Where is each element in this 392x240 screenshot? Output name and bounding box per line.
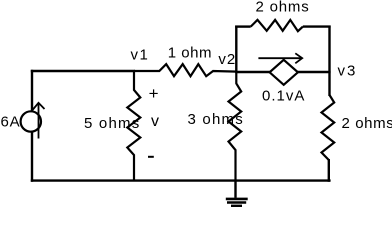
- polarity -: [148, 156, 154, 158]
- svg-text:5 ohms: 5 ohms: [84, 115, 140, 132]
- svg-text:6A: 6A: [1, 114, 21, 131]
- wire v2 to dependent source: [235, 71, 270, 73]
- wire bottom rail: [31, 179, 331, 181]
- wire v2 vertical up to top branch: [235, 26, 237, 73]
- ground bar 1: [226, 198, 248, 201]
- wire right vertical lower: [328, 159, 330, 182]
- wire left vertical lower: [31, 131, 33, 182]
- svg-text:1 ohm: 1 ohm: [168, 45, 212, 62]
- svg-text:2 ohms: 2 ohms: [256, 0, 310, 16]
- resistor R 2 ohms (top branch): [251, 20, 303, 31]
- wire top branch right lead: [303, 25, 331, 27]
- ground bar 2: [227, 201, 246, 204]
- svg-text:0.1vA: 0.1vA: [262, 88, 305, 105]
- ground stem: [234, 180, 236, 198]
- svg-text:v: v: [151, 113, 159, 130]
- resistor R 2 ohms (right vertical): [322, 95, 335, 160]
- dependent current source diamond 0.1vA: [270, 60, 298, 85]
- resistor R 5 ohms (vertical at v1): [127, 71, 140, 181]
- dependent source arrow (points right): [258, 53, 302, 63]
- resistor R 3 ohms (vertical at v2): [229, 71, 242, 181]
- wire top branch left lead: [235, 25, 251, 27]
- svg-text:v3: v3: [338, 63, 358, 80]
- svg-text:3 ohms: 3 ohms: [188, 111, 244, 128]
- wire left vertical upper: [31, 70, 33, 113]
- svg-text:+: +: [149, 84, 159, 103]
- current source I1 6A circle: [21, 111, 41, 131]
- svg-text:v1: v1: [131, 47, 150, 64]
- wire top-left horizontal (node to v1): [31, 70, 135, 72]
- current source I1 arrow (points up): [33, 103, 45, 139]
- ground bar 3: [231, 205, 242, 208]
- svg-text:v2: v2: [218, 51, 236, 68]
- wire right vertical upper (top corner through v3): [328, 26, 330, 97]
- wire dependent source to v3: [297, 71, 331, 73]
- svg-text:2 ohms: 2 ohms: [342, 115, 392, 132]
- resistor R 1 ohm (horizontal v1 to v2): [134, 64, 237, 76]
